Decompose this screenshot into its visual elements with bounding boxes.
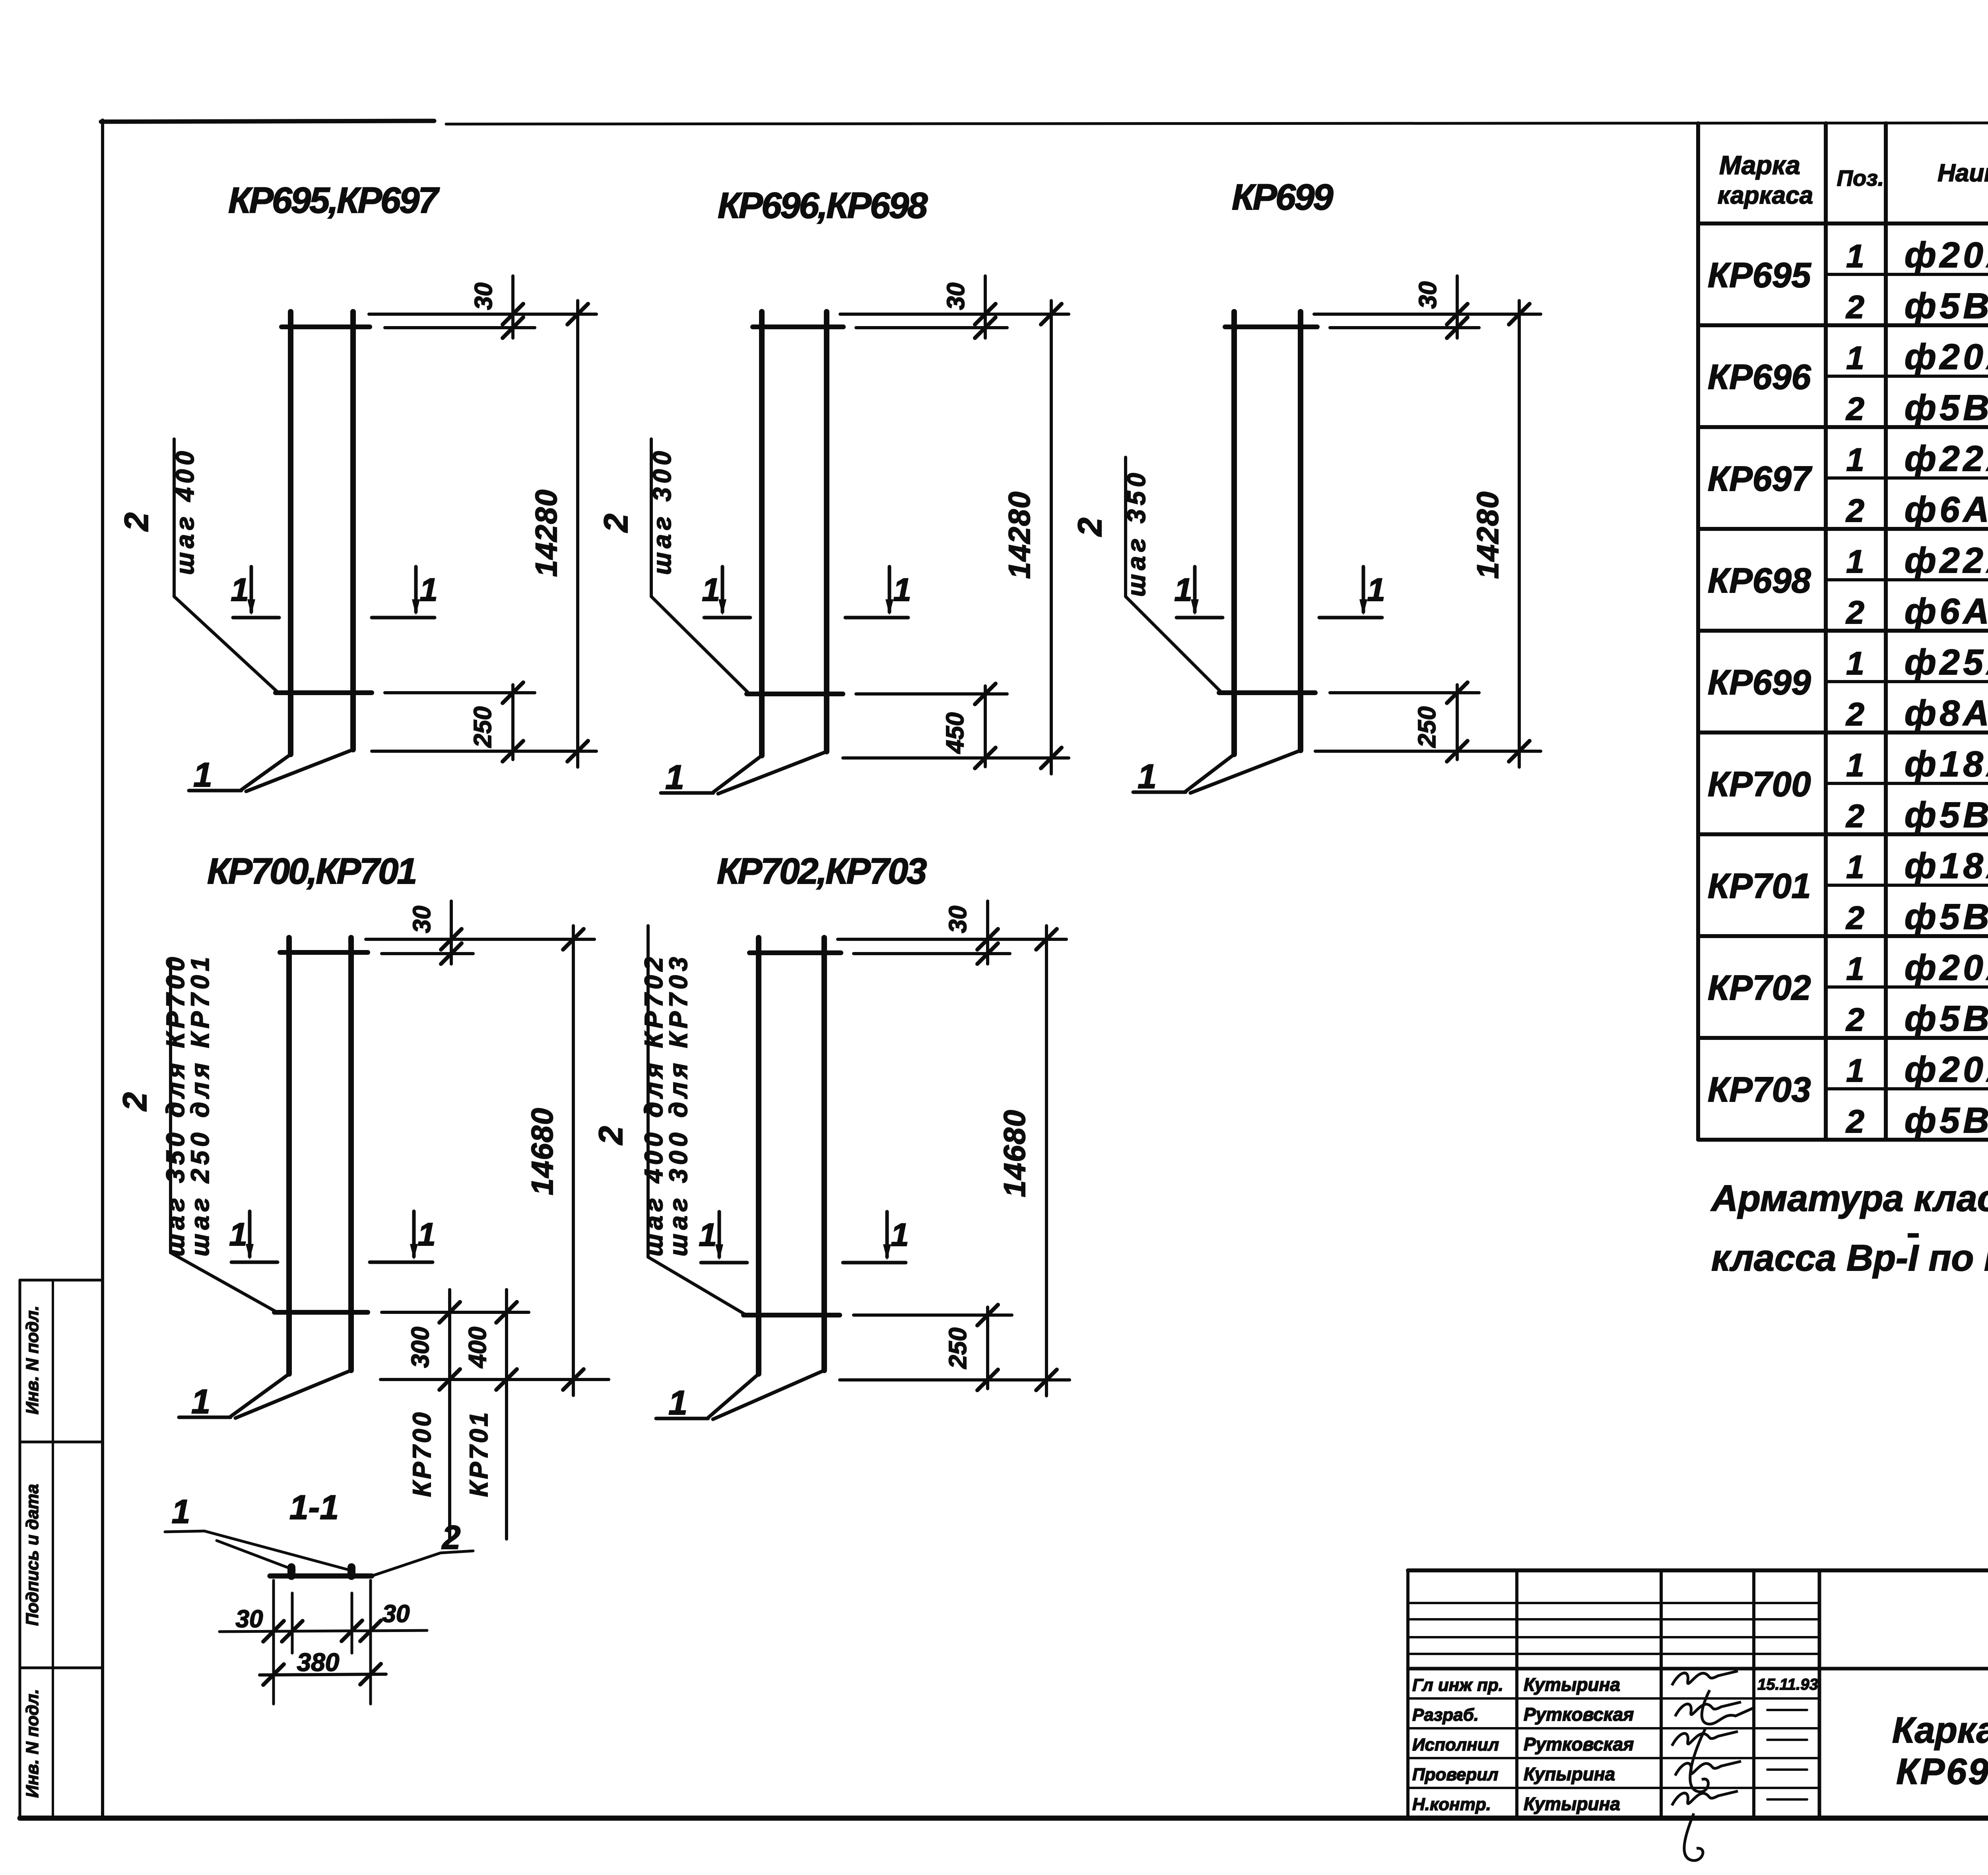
- svg-text:1: 1: [668, 1384, 687, 1422]
- svg-text:30: 30: [944, 906, 972, 933]
- svg-text:1: 1: [191, 1383, 210, 1421]
- svg-text:шаг 250 для КР701: шаг 250 для КР701: [186, 953, 214, 1257]
- cage drawing KR695/KR697: ext line bottom wire level: [385, 691, 535, 694]
- svg-text:2: 2: [597, 514, 635, 533]
- section 1-1: bar pos.1 left cross-section: [287, 1567, 295, 1576]
- cage drawing KR702/KR703: bar pos.1 left: [756, 938, 761, 1374]
- cage drawing KR696/KR698: section mark 1 right: [845, 567, 911, 618]
- cage drawing KR696/KR698: ext line bar bottom level: [843, 756, 1069, 760]
- cage drawing KR702/KR703: section mark 1 left: [699, 1212, 747, 1263]
- cage drawing KR695/KR697: top wire pos.2: [282, 324, 370, 329]
- svg-text:250: 250: [944, 1327, 972, 1369]
- svg-text:Рутковская: Рутковская: [1524, 1704, 1634, 1725]
- svg-text:1: 1: [172, 1493, 190, 1530]
- svg-text:1: 1: [417, 1216, 436, 1253]
- cage drawing KR700/KR701: section mark 1 left: [229, 1211, 278, 1262]
- svg-text:Проверил: Проверил: [1412, 1765, 1498, 1784]
- svg-text:30: 30: [236, 1605, 263, 1633]
- cage drawing KR695/KR697: section mark 1 right: [372, 567, 438, 618]
- svg-text:КР700: КР700: [1708, 764, 1811, 804]
- svg-text:КР702: КР702: [1708, 968, 1811, 1007]
- cage drawing KR702/KR703: dim 30: [986, 901, 989, 964]
- cage drawing KR695/KR697: ext line top wire level: [385, 326, 535, 329]
- cage drawing KR696/KR698: dim 30: [984, 276, 987, 338]
- cage drawing KR696/KR698: bar pos.1 left: [759, 312, 765, 756]
- cage drawing KR695/KR697: [118, 180, 596, 794]
- cage drawing KR699: ext line bar bottom level: [1315, 750, 1541, 753]
- svg-text:КР696: КР696: [1708, 357, 1811, 396]
- cage drawing KR699: leader pos.2 with spacing note: [1124, 457, 1127, 597]
- cage drawing KR702/KR703: bar pos.1 right: [821, 938, 827, 1370]
- svg-text:Купырина: Купырина: [1524, 1764, 1615, 1784]
- svg-text:Гл инж пр.: Гл инж пр.: [1412, 1675, 1503, 1695]
- cage drawing KR700/KR701: section mark 1 right: [370, 1211, 436, 1262]
- cage drawing KR702/KR703: bent end of bars: [708, 1374, 759, 1418]
- cage drawing KR699: section mark 1 right: [1319, 567, 1385, 618]
- svg-text:шаг 350: шаг 350: [1122, 469, 1151, 597]
- svg-text:2: 2: [1845, 798, 1864, 834]
- svg-text:1: 1: [699, 1217, 717, 1253]
- cage drawing KR699: bar pos.1 left: [1231, 312, 1237, 754]
- svg-text:Рутковская: Рутковская: [1524, 1734, 1634, 1755]
- frame: top border segment A: [101, 121, 434, 122]
- margin strip: outer left line: [19, 1280, 21, 1818]
- table: horizontal sub-row dividers: [1826, 273, 1988, 276]
- svg-text:2: 2: [1845, 900, 1864, 936]
- cage drawing KR696/KR698: ext line bar top level: [840, 313, 1069, 316]
- svg-text:2: 2: [116, 1092, 153, 1112]
- svg-text:2: 2: [1845, 1002, 1864, 1038]
- table: horizontal grid lines (group borders): [1698, 222, 1988, 225]
- svg-text:КР697: КР697: [1708, 459, 1813, 498]
- cage drawing KR700/KR701: ext line top wire level: [382, 952, 473, 955]
- svg-text:1: 1: [1846, 951, 1864, 987]
- svg-text:ф20АIII l=14680: ф20АIII l=14680: [1905, 1050, 1988, 1090]
- section 1-1: extension lines: [272, 1580, 275, 1704]
- frame: bottom border: [20, 1816, 1988, 1821]
- svg-text:каркаса: каркаса: [1718, 182, 1813, 209]
- svg-text:1: 1: [1846, 1053, 1864, 1089]
- cage drawing KR700/KR701: dim 30: [450, 901, 453, 964]
- cage drawing KR696/KR698: bent end of bars: [713, 756, 762, 792]
- svg-text:1: 1: [231, 572, 249, 608]
- svg-text:2: 2: [1845, 493, 1864, 529]
- cage drawing KR696/KR698: dim 14280: [1050, 301, 1053, 774]
- cage drawing KR696/KR698: ext line top wire level: [856, 326, 1007, 329]
- cage drawing KR699: ext line bottom wire level: [1330, 691, 1479, 694]
- cage drawing KR702/KR703: ext line bar top level: [838, 938, 1066, 941]
- svg-text:КР695...КР703: КР695...КР703: [1896, 1751, 1988, 1792]
- cage drawing KR700/KR701: bottom wire pos.2: [274, 1310, 368, 1315]
- specification table: [1698, 123, 1988, 1141]
- svg-text:КР696,КР698: КР696,КР698: [718, 185, 928, 226]
- cage drawing KR702/KR703: dim 14680: [1045, 926, 1048, 1396]
- svg-text:2: 2: [118, 513, 155, 532]
- svg-text:шаг 400: шаг 400: [171, 447, 199, 575]
- svg-text:300: 300: [407, 1327, 434, 1368]
- cage drawing KR699: dim 250: [1456, 685, 1459, 760]
- svg-text:30: 30: [470, 283, 497, 310]
- svg-text:ф6АI l=380: ф6АI l=380: [1905, 592, 1988, 631]
- svg-text:1: 1: [1846, 747, 1864, 783]
- svg-text:1: 1: [419, 572, 438, 608]
- svg-text:30: 30: [942, 283, 970, 310]
- svg-text:250: 250: [1413, 706, 1441, 748]
- cage drawing KR702/KR703: bottom wire pos.2: [744, 1313, 840, 1317]
- svg-text:Поз.: Поз.: [1837, 165, 1884, 190]
- svg-text:Подпись и дата: Подпись и дата: [23, 1484, 42, 1626]
- svg-text:Инв. N подл.: Инв. N подл.: [23, 1306, 42, 1415]
- svg-text:1: 1: [1846, 849, 1864, 885]
- title block: outer and vertical lines: [1406, 1570, 1409, 1818]
- svg-text:30: 30: [382, 1600, 410, 1628]
- svg-text:1-1: 1-1: [289, 1488, 339, 1527]
- cage drawing KR700/KR701: dim 300: [448, 1290, 451, 1539]
- cage drawing KR699: bottom wire pos.2: [1219, 690, 1315, 695]
- cage drawing KR695/KR697: leader pos.2 with spacing note: [173, 439, 176, 597]
- svg-text:ф5ВрI l=380: ф5ВрI l=380: [1905, 795, 1988, 835]
- cage drawing KR700/KR701: leader pos.2 with spacing note: [169, 960, 172, 1253]
- cage drawing KR699: dim 30: [1456, 276, 1459, 338]
- svg-text:ф6АI l=380: ф6АI l=380: [1905, 490, 1988, 530]
- cage drawing KR695/KR697: dim 30: [511, 276, 514, 338]
- section 1-1: dim 30 / 30: [219, 1630, 427, 1632]
- svg-text:1: 1: [1846, 238, 1864, 274]
- cage drawing KR696/KR698: bottom wire pos.2: [747, 692, 843, 696]
- cage drawing KR695/KR697: dim 14280: [576, 301, 579, 767]
- svg-text:1: 1: [1846, 645, 1864, 682]
- margin strip: divider 2: [20, 1667, 103, 1669]
- svg-text:1: 1: [893, 572, 911, 608]
- cage drawing KR699: bent end of bars: [1186, 754, 1234, 791]
- svg-text:2: 2: [1845, 1104, 1864, 1140]
- cage drawing KR700/KR701: top wire pos.2: [280, 950, 368, 955]
- svg-text:1: 1: [891, 1217, 909, 1253]
- title block: horizontal lines: [1408, 1568, 1988, 1572]
- svg-text:14280: 14280: [530, 489, 563, 577]
- svg-text:14280: 14280: [1003, 491, 1037, 579]
- cage drawing KR700/KR701: bar pos.1 left: [286, 938, 292, 1374]
- margin strip: top line: [20, 1279, 103, 1282]
- cage drawing KR699: dim 14280: [1518, 301, 1521, 767]
- svg-text:Исполнил: Исполнил: [1412, 1735, 1499, 1755]
- svg-text:КР698: КР698: [1708, 561, 1811, 600]
- cage drawing KR700/KR701: bar pos.1 right: [348, 938, 354, 1370]
- cage drawing KR699: section mark 1 left: [1174, 567, 1223, 618]
- svg-text:КР702,КР703: КР702,КР703: [717, 851, 927, 892]
- title block: signatures: [1672, 1671, 1738, 1685]
- svg-text:1: 1: [1846, 544, 1864, 580]
- svg-text:ф18АIII l=14680: ф18АIII l=14680: [1905, 846, 1988, 886]
- cage drawing KR699: bar pos.1 right: [1298, 312, 1303, 750]
- svg-text:КР699: КР699: [1708, 663, 1811, 702]
- svg-text:Разраб.: Разраб.: [1412, 1705, 1479, 1725]
- title block: [1408, 1570, 1988, 1861]
- svg-text:КР695: КР695: [1708, 255, 1811, 295]
- cage drawing KR702/KR703: ext line bar bottom level: [840, 1378, 1070, 1381]
- svg-text:Н.контр.: Н.контр.: [1412, 1795, 1491, 1814]
- svg-text:ф20АIII l=14280: ф20АIII l=14280: [1905, 235, 1988, 275]
- svg-text:КР695,КР697: КР695,КР697: [228, 180, 440, 221]
- svg-text:Арматура класса А-III и А-I по: Арматура класса А-III и А-I по ГОСТ 5781…: [1710, 1177, 1988, 1219]
- cage drawing KR702/KR703: leader pos.2 with spacing note: [646, 926, 650, 1257]
- svg-text:30: 30: [408, 906, 436, 933]
- svg-text:Кутырина: Кутырина: [1524, 1674, 1620, 1695]
- svg-text:1: 1: [665, 758, 684, 797]
- svg-text:Инв. N подл.: Инв. N подл.: [23, 1689, 42, 1798]
- svg-text:Кутырина: Кутырина: [1524, 1793, 1620, 1814]
- svg-text:КР700: КР700: [408, 1410, 436, 1497]
- svg-text:2: 2: [1845, 696, 1864, 733]
- cage drawing KR695/KR697: ext line bar bottom level: [372, 750, 596, 753]
- cage drawing KR695/KR697: dim 250: [511, 685, 514, 760]
- section 1-1: wire pos.2 in plan: [270, 1574, 372, 1579]
- cage drawing KR696/KR698: bar pos.1 right: [824, 312, 829, 752]
- frame: top border segment B: [446, 122, 1988, 124]
- svg-text:КР701: КР701: [1708, 866, 1811, 905]
- cage drawing KR696/KR698: top wire pos.2: [753, 324, 843, 329]
- svg-text:ф5ВрI l=380: ф5ВрI l=380: [1905, 1101, 1988, 1141]
- cage drawing KR699: [1071, 177, 1541, 796]
- svg-text:шаг 300: шаг 300: [648, 447, 676, 575]
- cage drawing KR699: top wire pos.2: [1225, 324, 1317, 329]
- cage drawing KR700/KR701: ext line bar top level: [366, 938, 594, 941]
- cage drawing KR700/KR701: ext line bottom wire level: [382, 1311, 529, 1314]
- svg-text:1: 1: [193, 756, 212, 794]
- svg-text:ф22АIII l=14280: ф22АIII l=14280: [1905, 439, 1988, 479]
- frame: left border: [101, 120, 104, 1818]
- svg-text:1: 1: [229, 1216, 247, 1253]
- svg-text:КР703: КР703: [1708, 1070, 1811, 1109]
- svg-text:250: 250: [469, 706, 497, 748]
- svg-text:14680: 14680: [526, 1107, 559, 1195]
- svg-text:1: 1: [1367, 572, 1385, 608]
- cage drawing KR696/KR698: section mark 1 left: [702, 567, 750, 618]
- svg-text:шаг 300 для КР703: шаг 300 для КР703: [664, 953, 693, 1257]
- svg-text:ф20АIII l=14680: ф20АIII l=14680: [1905, 948, 1988, 988]
- svg-text:1: 1: [702, 572, 720, 608]
- cage drawing KR700/KR701: [116, 851, 609, 1539]
- svg-text:КР701: КР701: [464, 1410, 493, 1497]
- cage drawing KR695/KR697: section mark 1 left: [231, 567, 279, 618]
- svg-text:класса Вр-I по ГОСТ 6727-80: класса Вр-I по ГОСТ 6727-80: [1711, 1237, 1988, 1278]
- svg-text:30: 30: [1414, 282, 1442, 309]
- margin strip: divider 1: [20, 1441, 103, 1444]
- cage drawing KR702/KR703: ext line top wire level: [854, 952, 1010, 955]
- table: vertical grid lines: [1696, 123, 1700, 1140]
- svg-text:КР699: КР699: [1232, 177, 1333, 218]
- section 1-1: dim 380: [260, 1674, 386, 1675]
- section 1-1 view: [165, 1488, 473, 1704]
- cage drawing KR695/KR697: ext line bar top level: [369, 313, 596, 316]
- svg-text:КР700,КР701: КР700,КР701: [207, 851, 415, 892]
- cage drawing KR696/KR698: leader pos.2 with spacing note: [650, 439, 653, 597]
- svg-text:ф8АI l=380: ф8АI l=380: [1905, 694, 1988, 733]
- svg-text:Марка: Марка: [1719, 150, 1800, 180]
- cage drawing KR702/KR703: dim 250: [986, 1307, 989, 1389]
- cage drawing KR696/KR698: dim 450: [984, 686, 987, 767]
- svg-text:ф5ВрI l=380: ф5ВрI l=380: [1905, 286, 1988, 326]
- cage drawing KR702/KR703: ext line bottom wire level: [854, 1313, 1012, 1317]
- svg-text:ф5ВрI l=380: ф5ВрI l=380: [1905, 388, 1988, 428]
- cage drawing KR696/KR698: [597, 185, 1069, 797]
- svg-text:380: 380: [297, 1648, 340, 1677]
- svg-text:Наименование: Наименование: [1938, 159, 1988, 187]
- svg-text:400: 400: [464, 1327, 491, 1368]
- svg-text:14280: 14280: [1471, 491, 1505, 579]
- title block: dash marks: [1767, 1709, 1807, 1711]
- svg-text:1: 1: [1138, 758, 1157, 796]
- cage drawing KR700/KR701: dim 400: [505, 1290, 508, 1539]
- svg-text:ф5ВрI l=380: ф5ВрI l=380: [1905, 999, 1988, 1039]
- svg-text:ф5ВрI l=380: ф5ВрI l=380: [1905, 897, 1988, 937]
- cage drawing KR695/KR697: bent end of bars: [241, 754, 291, 790]
- svg-text:ф22АIII l=14280: ф22АIII l=14280: [1905, 541, 1988, 581]
- cage drawing KR695/KR697: bar pos.1 right: [350, 312, 356, 750]
- svg-text:1: 1: [1846, 442, 1864, 478]
- svg-text:Каркас плоский: Каркас плоский: [1892, 1710, 1988, 1751]
- svg-text:1: 1: [1846, 340, 1864, 376]
- section 1-1: bar pos.1 right cross-section: [348, 1567, 355, 1576]
- cage drawing KR702/KR703: [592, 851, 1070, 1422]
- margin strip: inner divider: [52, 1280, 54, 1818]
- svg-text:2: 2: [1845, 289, 1864, 325]
- svg-text:ф18АIII l=14680: ф18АIII l=14680: [1905, 744, 1988, 784]
- cage drawing KR695/KR697: bottom wire pos.2: [276, 690, 372, 695]
- svg-text:2: 2: [1071, 518, 1109, 537]
- svg-text:2: 2: [1845, 595, 1864, 631]
- svg-text:450: 450: [942, 712, 969, 754]
- cage drawing KR702/KR703: top wire pos.2: [749, 950, 841, 955]
- cage drawing KR702/KR703: section mark 1 right: [843, 1212, 909, 1263]
- cage drawing KR696/KR698: ext line bottom wire level: [856, 692, 1007, 696]
- cage drawing KR699: ext line bar top level: [1314, 313, 1541, 316]
- cage drawing KR700/KR701: dim 14680: [572, 926, 575, 1395]
- cage drawing KR695/KR697: bar pos.1 left: [288, 312, 293, 754]
- svg-text:ф25АIII l=14280: ф25АIII l=14280: [1905, 643, 1988, 682]
- svg-text:14680: 14680: [998, 1109, 1032, 1197]
- svg-text:2: 2: [592, 1126, 629, 1146]
- svg-text:2: 2: [1845, 391, 1864, 427]
- cage drawing KR700/KR701: ext line bar bottom level: [381, 1378, 609, 1381]
- cage drawing KR699: ext line top wire level: [1330, 326, 1479, 329]
- svg-text:ф20АIII l=14280: ф20АIII l=14280: [1905, 337, 1988, 377]
- svg-text:15.11.93: 15.11.93: [1757, 1676, 1818, 1693]
- cage drawing KR700/KR701: bent end of bars: [231, 1374, 289, 1416]
- svg-text:1: 1: [1174, 572, 1192, 608]
